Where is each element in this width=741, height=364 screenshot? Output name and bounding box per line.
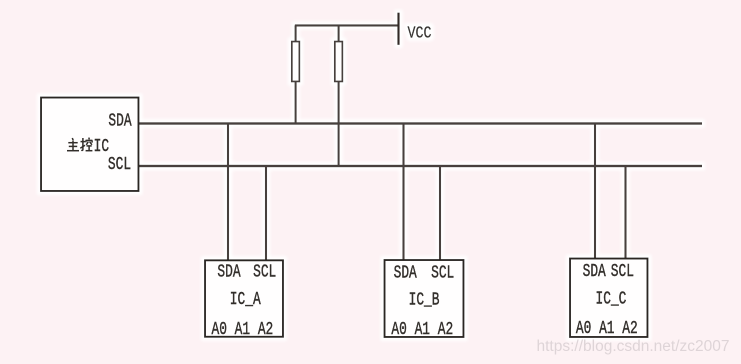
resistor R2 (SCL pull-up) — [335, 42, 343, 82]
wire SCL bus to IC_A SCL — [265, 166, 267, 260]
svg-text:SCL: SCL — [431, 262, 454, 283]
power symbol VCC bar — [397, 13, 399, 45]
wire SCL bus to IC_C SCL — [624, 166, 626, 259]
wire R1 bottom to SDA bus — [295, 82, 297, 124]
svg-text:SDA: SDA — [217, 261, 240, 282]
wire SDA bus to IC_B SDA — [402, 124, 404, 261]
svg-text:https://blog.csdn.net/zc2007: https://blog.csdn.net/zc2007 — [537, 338, 730, 355]
slave IC_C box — [570, 259, 648, 338]
svg-text:SCL: SCL — [108, 154, 131, 175]
slave IC_A box — [205, 260, 283, 337]
wire SCL bus to IC_B SCL — [439, 166, 441, 260]
svg-text:A0 A1 A2: A0 A1 A2 — [576, 318, 638, 339]
wire SDA bus to IC_A SDA — [227, 124, 229, 261]
svg-text:SDA: SDA — [108, 110, 131, 131]
master IC box — [41, 98, 139, 192]
svg-text:IC_C: IC_C — [596, 288, 627, 309]
svg-text:VCC: VCC — [408, 23, 432, 43]
svg-text:SCL: SCL — [611, 261, 634, 282]
wire SDA bus to IC_C SDA — [594, 124, 596, 259]
svg-text:A0 A1 A2: A0 A1 A2 — [212, 319, 274, 340]
wire VCC to R2 top — [338, 25, 340, 42]
wire VCC to R1 top — [295, 25, 297, 42]
svg-text:SDA: SDA — [394, 262, 417, 283]
wire VCC rail — [295, 24, 399, 26]
wire R2 bottom to SCL bus — [338, 82, 340, 167]
svg-text:IC_A: IC_A — [230, 289, 261, 310]
wire SCL bus — [139, 165, 703, 167]
svg-text:IC_B: IC_B — [409, 289, 440, 310]
svg-text:SDA: SDA — [583, 261, 606, 282]
svg-text:SCL: SCL — [253, 261, 276, 282]
slave IC_B box — [385, 260, 464, 337]
svg-text:A0 A1 A2: A0 A1 A2 — [391, 319, 453, 340]
resistor R1 (SDA pull-up) — [292, 42, 300, 82]
label 主控 (hand-drawn hanzi) — [67, 138, 92, 151]
wire SDA bus — [139, 122, 703, 124]
